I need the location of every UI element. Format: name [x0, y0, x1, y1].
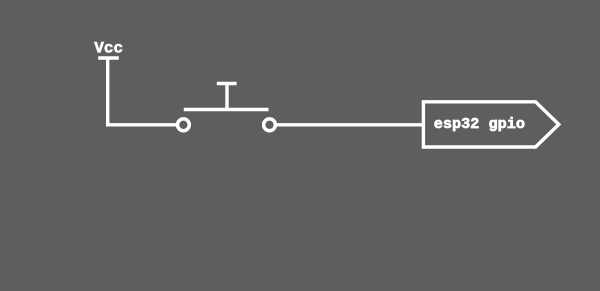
pushbutton SW1 actuator stem [225, 84, 228, 110]
svg-text:esp32 gpio: esp32 gpio [434, 115, 525, 133]
pushbutton SW1 right terminal [264, 119, 276, 131]
pushbutton SW1 left terminal [178, 119, 190, 131]
net flag esp32 gpio outline [423, 102, 558, 147]
wire from Vcc down and right to button terminal [108, 58, 176, 125]
svg-text:Vcc: Vcc [94, 40, 123, 58]
pushbutton SW1 movable contact bar [184, 108, 269, 111]
wire from button to esp32 gpio flag [277, 123, 423, 126]
Vcc power rail bar [98, 56, 119, 59]
pushbutton SW1 actuator cap [217, 82, 237, 85]
